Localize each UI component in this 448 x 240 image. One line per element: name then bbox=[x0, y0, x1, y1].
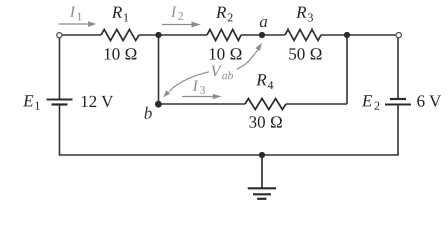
ground stub wire bbox=[261, 155, 263, 188]
wire: E2 to bottom rail bbox=[397, 106, 399, 156]
resistor R1 bbox=[101, 30, 139, 41]
open terminal right bbox=[396, 33, 401, 38]
label I3 bbox=[193, 81, 199, 91]
wire: R4 to right junction bbox=[286, 103, 347, 105]
label node a bbox=[260, 19, 267, 27]
resistor R3 bbox=[285, 30, 321, 41]
value 10 ohm (R1) bbox=[105, 48, 137, 59]
label R3 bbox=[296, 7, 306, 18]
battery E1 long plate bbox=[47, 99, 73, 101]
wire: E1 to bottom rail bbox=[59, 106, 61, 156]
current arrow I3 bbox=[182, 94, 222, 99]
label E1 bbox=[23, 95, 33, 106]
value 12 V bbox=[82, 96, 114, 108]
resistor R2 bbox=[207, 30, 241, 41]
wire: middle branch vertical to node b bbox=[158, 35, 160, 104]
battery E2 long plate bbox=[385, 104, 411, 106]
ground bbox=[248, 188, 276, 199]
label I1 bbox=[70, 7, 76, 17]
label Vab bbox=[211, 66, 221, 77]
wire: R3 to right terminal bbox=[321, 34, 396, 36]
Vab annotation curve upper segment with arrowhead to node a bbox=[237, 49, 258, 69]
label R4 bbox=[256, 74, 266, 85]
label node b bbox=[144, 107, 151, 119]
value 10 ohm (R2) bbox=[210, 48, 242, 59]
wire: R2 to R3 through node a bbox=[241, 34, 285, 36]
battery E2 short plate bbox=[390, 98, 406, 100]
current arrow I1 bbox=[59, 21, 97, 27]
label E2 bbox=[362, 95, 372, 106]
wire: bottom rail bbox=[59, 154, 399, 156]
value 50 ohm (R3) bbox=[289, 48, 321, 59]
label I2 bbox=[171, 6, 177, 16]
label R1 bbox=[112, 7, 122, 18]
wire: right branch vertical to E2 bbox=[397, 38, 399, 99]
wire: left branch vertical to E1 bbox=[59, 38, 61, 99]
value 30 ohm (R4) bbox=[249, 116, 281, 127]
Vab annotation curve lower segment with arrowhead to node b bbox=[169, 72, 209, 92]
wire: vertical from top junction down to R4 branch bbox=[346, 35, 348, 104]
ground junction on bottom rail bbox=[259, 152, 265, 158]
current arrow I2 bbox=[162, 22, 201, 28]
resistor R4 bbox=[245, 99, 286, 110]
node b junction bbox=[155, 101, 162, 108]
wire: R1 to R2 bbox=[139, 34, 207, 36]
label R2 bbox=[216, 7, 226, 18]
value 6 V bbox=[417, 95, 441, 107]
wire: node b to R4 bbox=[159, 103, 246, 105]
node junction at R3 right bbox=[344, 32, 350, 38]
battery E1 short plate bbox=[52, 103, 68, 105]
open terminal left bbox=[57, 33, 62, 38]
node junction at R1-R2 bbox=[155, 32, 161, 38]
wire: top left from terminal to R1 bbox=[63, 34, 102, 36]
node a junction bbox=[259, 32, 265, 38]
